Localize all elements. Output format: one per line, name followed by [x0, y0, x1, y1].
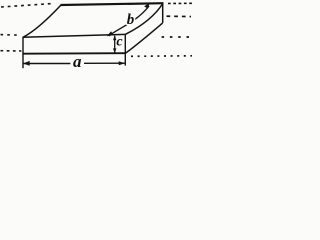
dashed continuation line left middle: [1, 34, 19, 37]
front right vertical edge with dimension extension: [124, 34, 126, 65]
dashed continuation line bottom right: [131, 55, 192, 58]
front top edge: [23, 34, 126, 37]
dashed continuation line right top: [168, 2, 192, 4]
dashed continuation line left bottom: [1, 50, 22, 52]
dashed continuation line right upper middle: [167, 15, 192, 17]
front bottom edge: [22, 52, 125, 55]
right face bottom receding edge: [125, 23, 162, 53]
arrowhead a left: [23, 61, 30, 66]
svg-text:c: c: [116, 35, 123, 50]
back right vertical edge: [162, 3, 164, 23]
dimension line a (left segment): [23, 63, 70, 65]
dimension line a (right segment): [84, 62, 125, 64]
dimension line c: [114, 36, 116, 53]
front left vertical edge with dimension extension: [22, 37, 24, 68]
back top edge of slab: [61, 3, 164, 5]
arrowhead a right: [119, 61, 125, 65]
right receding top edge: [125, 4, 162, 35]
left receding top edge: [23, 5, 61, 37]
dimension line b shaft: [109, 6, 149, 36]
arrowhead c bottom: [113, 48, 116, 53]
svg-text:b: b: [127, 12, 135, 28]
dashed continuation line right lower middle: [162, 36, 191, 38]
dashed continuation line left top: [1, 4, 52, 7]
arrowhead c top: [113, 35, 116, 40]
arrowhead b lower: [107, 31, 114, 36]
svg-text:a: a: [73, 52, 82, 71]
arrowhead b upper: [144, 3, 150, 9]
